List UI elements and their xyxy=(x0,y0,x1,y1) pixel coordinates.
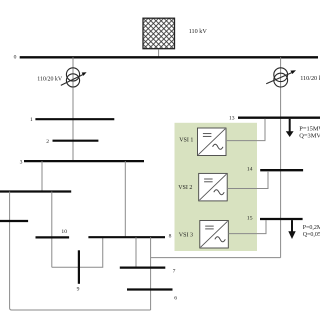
svg-text:P=0,2MW: P=0,2MW xyxy=(303,225,320,231)
svg-text:VSI 1: VSI 1 xyxy=(179,137,193,143)
converter VSI1 xyxy=(198,128,227,156)
wire grid to bus 0 xyxy=(158,49,160,57)
wire feeder1 bus0 to bus3 xyxy=(72,57,74,161)
wire bus3 to bus8 xyxy=(124,161,126,237)
svg-text:Q=3MVar: Q=3MVar xyxy=(299,132,320,139)
svg-text:110 kV: 110 kV xyxy=(189,28,208,35)
VSI green container box xyxy=(175,123,258,251)
svg-text:P=15MW: P=15MW xyxy=(299,125,320,132)
wire VSI1 to bus13 xyxy=(226,119,265,141)
converter VSI2 xyxy=(199,173,228,201)
wire bus3 to bus4 xyxy=(41,161,43,191)
svg-text:3: 3 xyxy=(20,159,23,165)
wire bus8 down through bus7 bus6 to bottom xyxy=(150,237,152,310)
wire bus4 to bus10 and down xyxy=(51,192,53,268)
bus 7 xyxy=(120,267,166,269)
svg-text:6: 6 xyxy=(174,295,177,301)
bus 10 xyxy=(36,236,70,238)
wire bus4 via bus11 to bottom xyxy=(10,192,151,311)
svg-text:0: 0 xyxy=(14,54,17,60)
bus 14 xyxy=(260,169,303,171)
bus 13 xyxy=(238,117,320,119)
bus 11 xyxy=(0,220,28,222)
bus 6 xyxy=(127,288,173,290)
svg-text:10: 10 xyxy=(61,229,67,235)
bus 1 xyxy=(35,118,114,120)
wire VSI3 to bus15 xyxy=(228,220,266,234)
wire bus8 branch to feeder2 xyxy=(151,257,281,259)
svg-text:8: 8 xyxy=(169,234,172,240)
svg-text:2: 2 xyxy=(46,139,49,145)
svg-text:1: 1 xyxy=(30,117,33,123)
svg-text:15: 15 xyxy=(247,215,253,221)
bus 9 (vertical bar) xyxy=(78,250,80,283)
wire bus10 to bus8 (U link) xyxy=(52,237,103,267)
bus 0 xyxy=(20,56,318,58)
transformer T2 xyxy=(266,68,296,87)
svg-text:Q=0,05MVar: Q=0,05MVar xyxy=(303,232,320,238)
bus 8 xyxy=(88,236,165,238)
load arrow bus 13 xyxy=(286,119,294,137)
wire VSI2 to bus14 xyxy=(227,171,268,189)
transformer T1 xyxy=(61,68,87,87)
converter VSI3 xyxy=(200,221,229,249)
bus 3 xyxy=(24,160,144,162)
load arrow bus 15 xyxy=(288,220,295,239)
external grid hatched box xyxy=(143,18,175,49)
svg-text:110/20 kV: 110/20 kV xyxy=(300,75,320,82)
svg-text:VSI 2: VSI 2 xyxy=(178,185,192,191)
bus 2 xyxy=(53,140,99,142)
svg-text:9: 9 xyxy=(77,287,80,293)
bus 15 xyxy=(260,218,303,220)
svg-text:13: 13 xyxy=(229,116,235,122)
bus 4 xyxy=(0,190,71,192)
wire feeder2 bus0 to branch corner xyxy=(280,57,282,257)
svg-text:7: 7 xyxy=(173,269,176,275)
svg-text:110/20 kV: 110/20 kV xyxy=(37,77,63,83)
wire bus8 to bus7 xyxy=(135,237,137,267)
svg-text:VSI 3: VSI 3 xyxy=(179,232,193,238)
svg-text:14: 14 xyxy=(247,166,253,172)
